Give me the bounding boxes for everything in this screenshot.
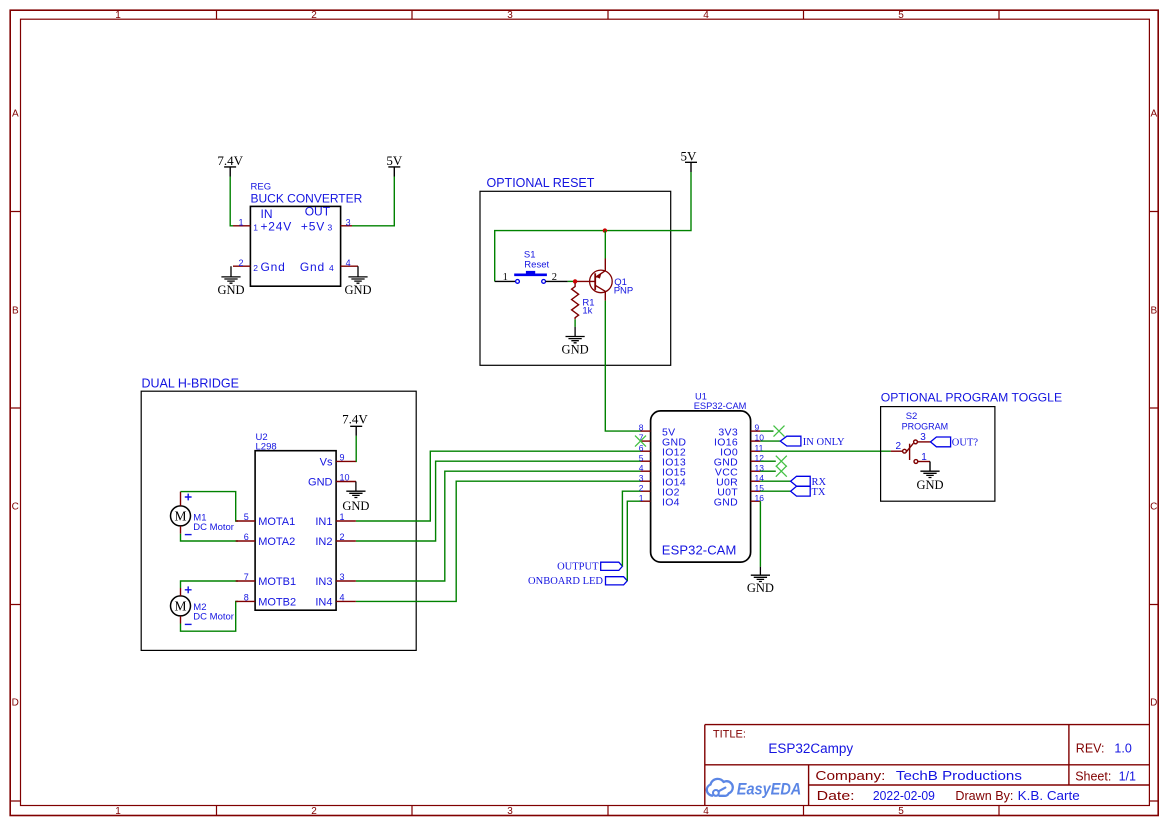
power flag 7.4V (h-bridge) <box>342 411 368 436</box>
svg-text:16: 16 <box>755 493 765 503</box>
svg-text:10: 10 <box>340 472 350 482</box>
wire R1 to ground <box>574 319 576 327</box>
wire junction to emitter <box>604 231 606 259</box>
svg-text:TITLE:: TITLE: <box>713 729 746 741</box>
svg-text:K.B. Carte: K.B. Carte <box>1018 788 1080 803</box>
svg-text:TechB Productions: TechB Productions <box>896 768 1023 783</box>
motor M2 <box>171 586 234 624</box>
net port OUTPUT <box>557 562 622 573</box>
section box <box>881 407 995 502</box>
pin 5 IO13 <box>639 453 686 469</box>
transistor Q1 PNP <box>590 259 613 301</box>
power flag 5V (buck output) <box>386 153 403 177</box>
svg-text:2: 2 <box>311 806 317 817</box>
svg-text:3: 3 <box>328 223 333 233</box>
svg-text:2: 2 <box>253 263 258 273</box>
svg-text:4: 4 <box>703 10 709 21</box>
chip REG body <box>250 206 340 286</box>
net port RX <box>791 476 827 488</box>
wire pin 13 stub <box>760 470 775 472</box>
svg-text:PROGRAM: PROGRAM <box>902 421 949 431</box>
pin 3 IN3 <box>315 572 356 588</box>
svg-text:Sheet:: Sheet: <box>1075 769 1111 783</box>
svg-text:DC Motor: DC Motor <box>193 522 234 533</box>
svg-text:2022-02-09: 2022-02-09 <box>873 788 935 803</box>
svg-text:OUTPUT: OUTPUT <box>557 562 599 573</box>
resistor R1 <box>572 283 595 319</box>
wire IN1 to ESP32 IO12 <box>356 451 641 521</box>
svg-text:PNP: PNP <box>614 285 634 296</box>
power flag 7.4V (buck input) <box>217 153 243 177</box>
svg-text:IN2: IN2 <box>315 536 332 548</box>
junction node at R1 top <box>573 279 577 283</box>
switch S2 symbol <box>903 440 918 463</box>
pin 3 IO14 <box>639 473 686 489</box>
junction node on 5V rail <box>603 228 607 232</box>
svg-text:7: 7 <box>244 572 249 582</box>
svg-text:MOTA2: MOTA2 <box>258 536 295 548</box>
svg-text:5V: 5V <box>681 148 698 163</box>
wire S2 pin1 to ground <box>918 461 930 463</box>
ground symbol at pin 10 <box>346 482 365 498</box>
switch S2 pin 2 stub <box>891 441 903 452</box>
svg-text:8: 8 <box>244 593 249 603</box>
svg-text:9: 9 <box>755 423 760 433</box>
ground symbol at S2 <box>920 471 939 477</box>
pin 8 5V <box>639 423 676 439</box>
svg-text:IN ONLY: IN ONLY <box>803 437 845 448</box>
title block text REV <box>1076 741 1132 755</box>
ground symbol at pin 2 <box>221 266 240 283</box>
svg-text:1: 1 <box>503 272 508 283</box>
svg-text:ONBOARD LED: ONBOARD LED <box>528 576 603 587</box>
frame zone numbers top <box>115 10 904 21</box>
svg-text:5: 5 <box>639 453 644 463</box>
wire pin3 to 5V flag <box>352 177 394 226</box>
title block text Company <box>815 768 1022 783</box>
switch S1 symbol <box>514 271 547 283</box>
chip U2 labels <box>256 432 277 453</box>
title block lines <box>705 725 1150 806</box>
wire IN4 to ESP32 IO14 <box>356 481 641 601</box>
svg-text:GND: GND <box>747 581 774 595</box>
svg-text:GND: GND <box>217 283 244 297</box>
pin 14 U0R <box>716 473 764 489</box>
no-connect X pin 12 <box>776 456 787 467</box>
pin 4 IO15 <box>639 463 686 479</box>
svg-text:3: 3 <box>507 10 513 21</box>
svg-text:ESP32-CAM: ESP32-CAM <box>662 543 737 558</box>
svg-text:4: 4 <box>346 258 351 268</box>
svg-text:DUAL H-BRIDGE: DUAL H-BRIDGE <box>142 377 239 391</box>
power flag 5V (reset) <box>681 148 698 172</box>
svg-text:U1: U1 <box>695 392 707 402</box>
svg-text:D: D <box>1150 698 1157 709</box>
svg-text:GND: GND <box>344 283 371 297</box>
wire pin 12 stub <box>760 460 775 462</box>
wire ONBOARD LED port to IO4 <box>627 501 640 581</box>
svg-text:4: 4 <box>703 806 709 817</box>
svg-text:1k: 1k <box>582 306 592 317</box>
wire 7.4V to Vs pin 9 <box>355 436 358 462</box>
no-connect X pin 7 <box>635 436 646 447</box>
switch S2 labels <box>902 411 949 431</box>
wire pin 15 to TX port <box>760 490 790 492</box>
svg-text:2: 2 <box>340 532 345 542</box>
svg-text:1/1: 1/1 <box>1119 769 1136 783</box>
svg-text:1.0: 1.0 <box>1114 741 1131 755</box>
svg-text:7.4V: 7.4V <box>217 153 243 168</box>
no-connect X pin 13 <box>776 466 787 477</box>
pin 1 IN1 <box>315 512 356 528</box>
wire IO0 to S2 <box>760 450 891 452</box>
svg-text:2: 2 <box>895 441 901 452</box>
svg-text:A: A <box>1150 109 1157 120</box>
pin 2 IN2 <box>315 532 356 548</box>
pin 15 U0T <box>717 483 764 499</box>
pin 10 GND <box>308 472 356 488</box>
svg-text:+5V: +5V <box>301 220 325 234</box>
wire 7.4V to pin1 <box>230 177 233 226</box>
svg-text:M: M <box>174 599 186 614</box>
pin 7 GND <box>639 433 687 449</box>
svg-text:3: 3 <box>340 572 345 582</box>
pin 11 IO0 <box>720 443 763 459</box>
svg-text:OPTIONAL PROGRAM TOGGLE: OPTIONAL PROGRAM TOGGLE <box>881 391 1062 405</box>
wire S2 pin3 to OUT? port <box>917 441 930 443</box>
svg-text:B: B <box>1150 306 1157 317</box>
svg-text:Company:: Company: <box>815 768 885 783</box>
svg-text:IN4: IN4 <box>315 597 332 609</box>
svg-text:8: 8 <box>639 423 644 433</box>
chip U2 body <box>255 451 336 611</box>
chip U1 body <box>651 411 751 562</box>
svg-text:3: 3 <box>346 217 351 227</box>
svg-text:GND: GND <box>916 478 943 492</box>
pin 5 MOTA1 <box>236 512 296 528</box>
pin 16 GND <box>714 493 764 509</box>
wire M2 minus to MOTB2 <box>181 601 239 631</box>
pin 2 Gnd <box>233 258 286 274</box>
title block text Date <box>817 788 1080 803</box>
svg-text:Vs: Vs <box>320 457 333 469</box>
svg-text:IN3: IN3 <box>315 576 332 588</box>
svg-text:9: 9 <box>340 452 345 462</box>
svg-text:MOTB2: MOTB2 <box>258 597 296 609</box>
pin 10 IO16 <box>714 433 764 449</box>
svg-text:OUT: OUT <box>305 205 331 219</box>
pin 9 Vs <box>320 452 356 468</box>
chip U1 labels <box>694 392 747 412</box>
svg-text:OPTIONAL RESET: OPTIONAL RESET <box>487 176 595 190</box>
svg-text:ESP32Campy: ESP32Campy <box>768 741 853 756</box>
svg-text:Gnd: Gnd <box>261 260 286 274</box>
pin 13 VCC <box>715 463 764 479</box>
wire M1 plus to MOTA1 <box>181 492 239 521</box>
net port ONBOARD LED <box>528 576 627 587</box>
title block text Sheet <box>1075 769 1136 783</box>
net port TX <box>791 486 826 498</box>
pin 4 IN4 <box>315 593 356 609</box>
pin 1 IN +24V <box>233 207 292 234</box>
svg-text:GND: GND <box>342 499 369 513</box>
svg-text:Reset: Reset <box>524 260 549 271</box>
wire 5V down and across to switch <box>495 172 691 281</box>
svg-text:5: 5 <box>898 10 904 21</box>
svg-text:C: C <box>12 502 19 513</box>
EasyEDA logo <box>707 779 802 798</box>
wire OUTPUT port to IO2 <box>622 491 640 566</box>
wire switch pin1 stub (black) <box>495 280 516 282</box>
svg-text:ESP32-CAM: ESP32-CAM <box>694 401 747 411</box>
pin 2 IO2 <box>639 483 680 499</box>
pin 3 OUT +5V <box>301 205 352 234</box>
svg-text:B: B <box>12 306 19 317</box>
wire M1 minus to MOTA2 <box>181 534 239 541</box>
svg-text:1: 1 <box>340 512 345 522</box>
svg-text:3: 3 <box>507 806 513 817</box>
frame zone letters left <box>12 109 19 709</box>
wire pin1 ground drop <box>929 462 931 472</box>
svg-text:3: 3 <box>639 473 644 483</box>
svg-text:C: C <box>1150 502 1157 513</box>
pin 1 IO4 <box>639 493 680 509</box>
ground symbol below R1 <box>566 327 585 343</box>
ground symbol below ESP32 <box>751 567 770 582</box>
ground symbol at pin 4 <box>348 266 367 283</box>
switch S1 labels <box>524 249 550 270</box>
pin 6 MOTA2 <box>236 532 296 548</box>
svg-text:EasyEDA: EasyEDA <box>737 779 802 798</box>
wire pin 10 to IN ONLY port <box>760 440 780 442</box>
net port OUT? <box>931 437 979 449</box>
svg-text:1: 1 <box>253 223 258 233</box>
svg-text:MOTA1: MOTA1 <box>258 516 295 528</box>
svg-text:BUCK CONVERTER: BUCK CONVERTER <box>251 192 363 206</box>
svg-text:REV:: REV: <box>1076 741 1105 755</box>
wire switch pin2 to junction <box>546 280 568 282</box>
wire M2 plus to MOTB1 <box>181 581 239 588</box>
svg-text:2: 2 <box>311 10 317 21</box>
svg-text:Gnd: Gnd <box>300 260 325 274</box>
net port IN ONLY <box>780 436 845 448</box>
chip REG label <box>251 182 363 206</box>
svg-text:M: M <box>174 509 186 524</box>
svg-text:1: 1 <box>115 10 121 21</box>
svg-text:DC Motor: DC Motor <box>193 611 234 622</box>
wire IN3 to ESP32 IO15 <box>356 471 641 581</box>
svg-text:Drawn By:: Drawn By: <box>955 788 1013 803</box>
svg-text:GND: GND <box>714 496 738 508</box>
svg-text:1: 1 <box>115 806 121 817</box>
svg-text:6: 6 <box>639 443 644 453</box>
pin 6 IO12 <box>639 443 686 459</box>
svg-text:2: 2 <box>238 258 243 268</box>
motor M1 <box>171 492 234 535</box>
pin 8 MOTB2 <box>236 593 296 609</box>
section box <box>141 391 416 650</box>
svg-text:IN1: IN1 <box>315 516 332 528</box>
wire IN2 to ESP32 IO13 <box>356 461 641 541</box>
wire green segment to node <box>568 280 574 282</box>
title block text TITLE <box>713 729 854 757</box>
svg-text:4: 4 <box>329 263 334 273</box>
svg-text:MOTB1: MOTB1 <box>258 576 296 588</box>
svg-text:6: 6 <box>244 532 249 542</box>
svg-text:4: 4 <box>639 463 644 473</box>
section box <box>480 191 671 365</box>
frame zone numbers bottom <box>115 806 904 817</box>
svg-text:GND: GND <box>562 342 589 356</box>
pin 7 MOTB1 <box>236 572 296 588</box>
wire pin 14 to RX port <box>760 480 790 482</box>
svg-text:Date:: Date: <box>817 788 855 803</box>
wire collector down to ESP32 5V pin <box>605 301 640 432</box>
svg-text:5: 5 <box>898 806 904 817</box>
svg-text:GND: GND <box>308 477 333 489</box>
transistor Q1 labels <box>614 277 634 296</box>
svg-text:3: 3 <box>920 432 926 443</box>
svg-text:OUT?: OUT? <box>952 438 979 449</box>
svg-text:5V: 5V <box>386 153 403 168</box>
svg-text:1: 1 <box>238 217 243 227</box>
frame zone letters right <box>1150 109 1157 709</box>
svg-text:D: D <box>12 698 19 709</box>
svg-text:+24V: +24V <box>261 220 293 234</box>
wire pin 16 to ground <box>759 501 761 567</box>
svg-text:TX: TX <box>812 487 826 498</box>
wire pin 9 stub <box>760 430 773 432</box>
svg-text:IN: IN <box>261 207 273 221</box>
no-connect X pin 9 <box>774 426 785 437</box>
svg-text:IO4: IO4 <box>662 496 680 508</box>
svg-text:7.4V: 7.4V <box>342 411 368 426</box>
pin 4 Gnd <box>300 258 358 274</box>
pin 9 3V3 <box>718 423 760 439</box>
svg-text:5: 5 <box>244 512 249 522</box>
svg-text:4: 4 <box>340 593 345 603</box>
wire node to Q1 base <box>577 280 595 282</box>
svg-text:A: A <box>12 109 19 120</box>
pin 12 GND <box>714 453 764 469</box>
